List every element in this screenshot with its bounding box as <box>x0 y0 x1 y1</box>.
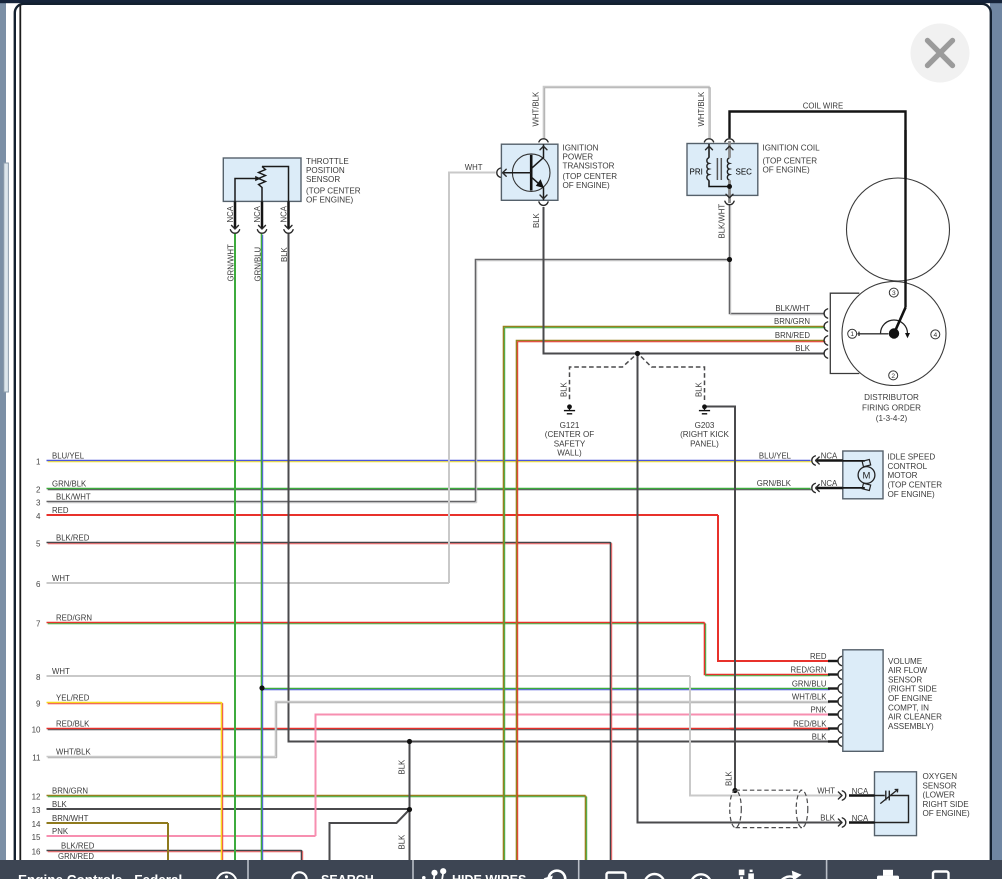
svg-text:COMPT, IN: COMPT, IN <box>888 703 929 712</box>
svg-text:3: 3 <box>892 290 896 297</box>
wire BLK/WHT coil drop to distributor <box>730 205 826 315</box>
toolbar undo icon <box>544 871 566 879</box>
VAF pin BLK <box>828 740 838 742</box>
svg-text:ASSEMBLY): ASSEMBLY) <box>888 722 934 731</box>
wire RED/GRN row7 to VAF pin <box>705 623 830 676</box>
svg-text:TRANSISTOR: TRANSISTOR <box>563 162 615 171</box>
svg-text:BLU/YEL: BLU/YEL <box>759 451 792 460</box>
wire row 2 GRN/BLK <box>47 489 812 490</box>
svg-text:(TOP CENTER: (TOP CENTER <box>888 481 943 490</box>
svg-text:WHT/BLK: WHT/BLK <box>532 91 541 126</box>
O2 pin BLK <box>849 821 875 823</box>
rotor arm <box>894 308 906 334</box>
svg-text:SAFETY: SAFETY <box>554 439 586 448</box>
svg-text:BLK: BLK <box>398 759 407 775</box>
svg-text:NCA: NCA <box>821 479 838 488</box>
wire row 14 BRN/WHT <box>47 822 169 824</box>
junction dot (409.5,809.5) <box>407 807 412 812</box>
wire YEL/RED vertical <box>222 702 223 861</box>
svg-text:6: 6 <box>36 580 41 589</box>
wire BLK/WHT row3 riser to coil junction <box>476 260 730 503</box>
svg-text:5: 5 <box>36 540 41 549</box>
svg-text:SENSOR: SENSOR <box>888 675 922 684</box>
wire row 16 BLK/RED <box>47 851 303 852</box>
svg-text:4: 4 <box>36 512 41 521</box>
wire GRN/BLU branch to VAF <box>262 689 830 690</box>
svg-text:(RIGHT SIDE: (RIGHT SIDE <box>888 685 937 694</box>
svg-text:GRN/BLK: GRN/BLK <box>52 479 87 488</box>
svg-text:(CENTER OF: (CENTER OF <box>545 430 595 439</box>
svg-text:WALL): WALL) <box>557 449 582 458</box>
dialog inner left line <box>19 5 21 861</box>
svg-text:10: 10 <box>32 726 41 735</box>
wire row 9 YEL/RED <box>47 703 223 704</box>
svg-text:16: 16 <box>32 848 41 857</box>
svg-text:G203: G203 <box>695 421 715 430</box>
bottom toolbar <box>0 860 1002 879</box>
svg-text:NCA: NCA <box>226 205 235 222</box>
wire BLK transistor emitter to distributor <box>544 207 825 354</box>
svg-text:OF ENGINE): OF ENGINE) <box>763 165 811 174</box>
svg-text:RED/GRN: RED/GRN <box>791 666 827 675</box>
svg-text:BLK: BLK <box>560 381 569 397</box>
svg-text:FIRING ORDER: FIRING ORDER <box>862 404 921 413</box>
ISC motor connectors <box>816 459 843 461</box>
wire row 4 RED <box>47 514 719 516</box>
svg-text:BRN/GRN: BRN/GRN <box>774 317 810 326</box>
svg-text:NCA: NCA <box>253 205 262 222</box>
svg-text:13: 13 <box>32 806 41 815</box>
wire row 1 BLU/YEL <box>47 461 812 462</box>
wire BLK vertical x409 <box>409 742 411 861</box>
distributor pin BRN/RED <box>824 336 828 345</box>
wire row 3 BLK/WHT <box>47 502 477 503</box>
svg-text:BLK: BLK <box>280 246 289 262</box>
svg-text:BLK: BLK <box>812 733 828 742</box>
svg-text:1: 1 <box>36 458 41 467</box>
toolbar clock icon <box>691 874 711 879</box>
wire BRN/RED distributor drop <box>517 341 826 862</box>
wire BLK from G203 ground to shield <box>705 407 736 790</box>
wire row 6 WHT <box>47 582 450 584</box>
distributor connector bracket <box>830 293 859 373</box>
svg-text:VOLUME: VOLUME <box>888 657 923 666</box>
svg-text:PNK: PNK <box>52 827 69 836</box>
svg-text:BLK/RED: BLK/RED <box>61 841 95 850</box>
svg-text:PRI: PRI <box>690 167 703 176</box>
ignition coil box <box>687 141 758 203</box>
svg-text:NCA: NCA <box>280 205 289 222</box>
svg-text:DISTRIBUTOR: DISTRIBUTOR <box>864 393 919 402</box>
wire BRN/GRN distributor drop <box>504 327 826 862</box>
transistor connector cups <box>539 139 548 142</box>
svg-text:WHT: WHT <box>465 163 483 172</box>
ignition power transistor box <box>501 144 558 200</box>
svg-text:BLK: BLK <box>725 770 734 786</box>
wire WHT row8 to O2 sensor <box>690 676 842 796</box>
svg-text:COIL WIRE: COIL WIRE <box>803 102 843 111</box>
svg-text:BLK: BLK <box>532 212 541 228</box>
close button <box>911 24 970 83</box>
junction dot (262,688) <box>259 685 264 690</box>
distributor center <box>889 328 899 338</box>
svg-text:9: 9 <box>36 700 41 709</box>
svg-text:WHT/BLK: WHT/BLK <box>697 91 706 126</box>
svg-text:BLK/WHT: BLK/WHT <box>56 492 91 501</box>
idle speed control motor box <box>843 451 883 499</box>
VAF pin RED/BLK <box>828 727 838 729</box>
svg-text:BLK/WHT: BLK/WHT <box>775 304 810 313</box>
toolbar info icon <box>217 873 237 879</box>
wire BRN/GRN row12 vertical x585 <box>586 796 587 862</box>
svg-text:7: 7 <box>36 620 41 629</box>
svg-text:GRN/RED: GRN/RED <box>58 852 94 861</box>
svg-text:AIR FLOW: AIR FLOW <box>888 666 927 675</box>
toolbar hide-wires icon <box>422 868 446 879</box>
svg-text:OF ENGINE: OF ENGINE <box>888 694 933 703</box>
svg-text:1: 1 <box>850 331 854 338</box>
svg-text:WHT/BLK: WHT/BLK <box>792 693 827 702</box>
svg-text:PANEL): PANEL) <box>690 439 719 448</box>
wire GRN/BLU vertical from TPS pin 2 (junction to VAF) <box>262 234 263 862</box>
svg-text:4: 4 <box>933 332 937 339</box>
svg-text:NCA: NCA <box>852 814 869 823</box>
svg-text:(LOWER: (LOWER <box>923 791 956 800</box>
svg-text:BLK/RED: BLK/RED <box>56 533 90 542</box>
rotor contact line from terminal 1 <box>858 333 889 335</box>
svg-text:POWER: POWER <box>563 153 594 162</box>
svg-text:YEL/RED: YEL/RED <box>56 693 90 702</box>
svg-text:BLK: BLK <box>795 344 811 353</box>
svg-text:IDLE SPEED: IDLE SPEED <box>888 452 936 461</box>
wire GRN/WHT vertical from TPS pin 1 <box>234 234 236 861</box>
toolbar print icon <box>877 870 899 879</box>
svg-text:8: 8 <box>36 673 41 682</box>
wire row 8 WHT <box>47 675 691 677</box>
svg-text:WHT: WHT <box>817 787 835 796</box>
coil core <box>716 158 718 180</box>
svg-text:RED: RED <box>810 652 827 661</box>
svg-text:BLU/YEL: BLU/YEL <box>52 451 85 460</box>
svg-text:IGNITION: IGNITION <box>563 144 599 153</box>
svg-text:AIR CLEANER: AIR CLEANER <box>888 713 942 722</box>
svg-text:SENSOR: SENSOR <box>923 781 957 790</box>
svg-text:OF ENGINE): OF ENGINE) <box>923 809 971 818</box>
wire WHT row6 riser to transistor <box>449 173 496 584</box>
junction dot (637.5,353.5) <box>635 351 640 356</box>
toolbar share icon <box>779 871 802 879</box>
junction dot (735,790.5) <box>732 788 737 793</box>
wire WHT/BLK row11 riser to VAF <box>276 702 830 758</box>
cylinder terminals <box>889 288 898 297</box>
svg-text:RED: RED <box>52 506 69 515</box>
toolbar compare icon <box>739 870 754 879</box>
VAF pin GRN/BLU <box>828 687 838 689</box>
svg-text:BRN/RED: BRN/RED <box>775 331 810 340</box>
coil SEC winding <box>727 158 729 180</box>
svg-text:Engine Controls - Federal: Engine Controls - Federal <box>18 873 182 879</box>
wire RED row4 to VAF RED pin <box>718 515 829 661</box>
svg-text:PNK: PNK <box>810 706 827 715</box>
svg-text:(TOP CENTER: (TOP CENTER <box>306 186 361 195</box>
svg-text:BLK: BLK <box>52 800 68 809</box>
distributor cap circle (top view upper) <box>847 178 950 281</box>
svg-text:M: M <box>863 471 871 482</box>
svg-text:(TOP CENTER: (TOP CENTER <box>763 156 818 165</box>
oxygen sensor box <box>875 772 917 836</box>
distributor pin BLK/WHT <box>824 309 828 318</box>
svg-text:NCA: NCA <box>852 787 869 796</box>
svg-text:G121: G121 <box>560 421 580 430</box>
svg-text:WHT: WHT <box>52 667 70 676</box>
wire BLK jog from dot to lower-left <box>330 810 410 861</box>
wire RED/BLK row10 extension to VAF pin <box>730 729 830 730</box>
volume air flow sensor box <box>843 650 883 752</box>
distributor pin BRN/GRN <box>824 322 828 331</box>
junction dot (729.5,259.5) <box>727 257 732 262</box>
svg-text:MOTOR: MOTOR <box>888 471 918 480</box>
svg-text:GRN/WHT: GRN/WHT <box>227 244 236 281</box>
toolbar box icon <box>607 873 626 879</box>
svg-text:SENSOR: SENSOR <box>306 175 340 184</box>
wire row 7 RED/GRN <box>47 623 706 624</box>
coil PRI winding <box>707 158 709 180</box>
wire row 15 PNK <box>47 835 316 837</box>
svg-text:SEC: SEC <box>736 167 753 176</box>
ground G203 <box>699 404 710 413</box>
svg-text:CONTROL: CONTROL <box>888 462 928 471</box>
svg-text:(RIGHT KICK: (RIGHT KICK <box>680 430 729 439</box>
svg-text:OXYGEN: OXYGEN <box>923 772 958 781</box>
svg-text:BLK: BLK <box>820 814 836 823</box>
wire COIL WIRE (black) <box>730 112 906 308</box>
svg-text:WHT/BLK: WHT/BLK <box>56 747 91 756</box>
svg-text:RED/GRN: RED/GRN <box>56 613 92 622</box>
svg-text:HIDE WIRES: HIDE WIRES <box>452 873 526 879</box>
svg-text:BLK: BLK <box>398 834 407 850</box>
wire dashed BLK branch to G121 and G203 <box>570 357 705 402</box>
svg-text:THROTTLE: THROTTLE <box>306 157 349 166</box>
toolbar circle icon <box>645 874 665 879</box>
svg-text:2: 2 <box>36 486 41 495</box>
toolbar save icon <box>933 872 949 879</box>
wire WHT/BLK transistor collector loop to coil <box>544 87 711 140</box>
page scrollbar thumb <box>4 163 9 392</box>
svg-text:NCA: NCA <box>821 452 838 461</box>
VAF pin RED/GRN <box>828 673 838 675</box>
svg-text:POSITION: POSITION <box>306 166 345 175</box>
wire row 5 BLK/RED <box>47 543 612 544</box>
svg-text:2: 2 <box>891 373 895 380</box>
throttle position sensor box <box>223 158 301 201</box>
svg-text:RED/BLK: RED/BLK <box>56 719 90 728</box>
wire PNK vertical and to VAF <box>316 715 829 837</box>
toolbar search icon <box>292 872 309 879</box>
VAF pin PNK <box>828 713 838 715</box>
svg-text:GRN/BLU: GRN/BLU <box>254 246 263 281</box>
wire COIL WIRE over distributor cap <box>904 130 906 308</box>
svg-text:12: 12 <box>32 793 41 802</box>
svg-text:RIGHT SIDE: RIGHT SIDE <box>923 800 970 809</box>
svg-text:SEARCH: SEARCH <box>321 873 374 879</box>
svg-text:IGNITION COIL: IGNITION COIL <box>763 143 821 152</box>
shielded cable (dashed capsule) <box>736 790 803 827</box>
svg-text:RED/BLK: RED/BLK <box>793 720 827 729</box>
distributor pin BLK <box>824 349 828 358</box>
VAF pin WHT/BLK <box>828 700 838 702</box>
wire row 12 BRN/GRN <box>47 796 587 797</box>
svg-text:(TOP CENTER: (TOP CENTER <box>563 172 618 181</box>
coil connector cups <box>704 139 713 142</box>
svg-text:OF ENGINE): OF ENGINE) <box>888 490 936 499</box>
wire BLK central vertical to O2 sensor <box>638 354 843 823</box>
VAF pin RED <box>828 660 838 662</box>
svg-text:OF ENGINE): OF ENGINE) <box>563 181 611 190</box>
svg-text:GRN/BLK: GRN/BLK <box>757 479 792 488</box>
O2 pin WHT <box>849 794 875 796</box>
wire BLK/RED row5 vertical <box>611 542 612 861</box>
svg-text:BRN/GRN: BRN/GRN <box>52 786 88 795</box>
svg-text:3: 3 <box>36 499 41 508</box>
rotor rotation arc <box>881 320 908 334</box>
svg-text:WHT: WHT <box>52 574 70 583</box>
wire row 10 RED/BLK <box>47 729 830 730</box>
wire BRN/WHT row14 vertical <box>167 823 169 860</box>
wire row 13 BLK <box>47 808 410 810</box>
svg-text:14: 14 <box>32 820 41 829</box>
ground G121 <box>564 404 575 413</box>
svg-text:11: 11 <box>32 754 41 763</box>
wire BLK/RED row16 vertical <box>302 850 303 861</box>
svg-text:BLK/WHT: BLK/WHT <box>718 204 727 239</box>
svg-text:OF ENGINE): OF ENGINE) <box>306 195 354 204</box>
wire BLK from TPS pin 3 down and to VAF BLK pin <box>289 234 831 742</box>
throttle position sensor pins <box>230 201 239 233</box>
svg-text:(1-3-4-2): (1-3-4-2) <box>876 414 908 423</box>
junction dot (409.5,741.5) <box>407 739 412 744</box>
wire row 11 WHT/BLK <box>47 757 277 758</box>
svg-text:GRN/BLU: GRN/BLU <box>792 680 827 689</box>
svg-text:BRN/WHT: BRN/WHT <box>52 814 89 823</box>
distributor rotor circle (lower) <box>842 282 946 386</box>
svg-text:BLK: BLK <box>695 381 704 397</box>
svg-text:15: 15 <box>32 833 41 842</box>
